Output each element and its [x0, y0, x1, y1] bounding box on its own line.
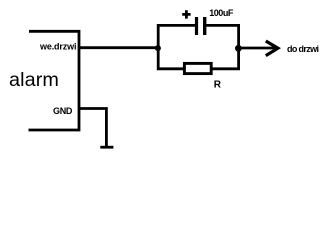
- wire we.drzwi pin to node A: [79, 46, 158, 49]
- svg-text:GND: GND: [53, 106, 73, 116]
- arrowhead do drzwi: [266, 41, 278, 56]
- wire node A up to capacitor left rail: [158, 25, 195, 48]
- svg-text:100uF: 100uF: [209, 8, 234, 18]
- capacitor C1 left plate: [195, 17, 198, 35]
- wire capacitor right rail down to node B: [206, 25, 238, 48]
- wire node A down to resistor left lead: [158, 48, 183, 69]
- svg-text:alarm: alarm: [9, 69, 59, 91]
- alarm block U1 (open-left box): [29, 31, 80, 130]
- capacitor C1 right plate: [203, 17, 206, 35]
- resistor R body: [184, 63, 211, 73]
- svg-text:we.drzwi: we.drzwi: [39, 42, 76, 52]
- svg-text:R: R: [214, 80, 222, 91]
- wire GND pin right then down: [79, 109, 106, 148]
- svg-text:do drzwi: do drzwi: [287, 44, 318, 54]
- node A junction dot: [155, 45, 161, 51]
- ground symbol bar: [100, 146, 113, 149]
- node B junction dot: [235, 45, 242, 52]
- wire node B to arrow: [239, 47, 277, 50]
- capacitor plus polarity mark: [182, 10, 190, 18]
- wire resistor right lead up to node B: [212, 48, 239, 69]
